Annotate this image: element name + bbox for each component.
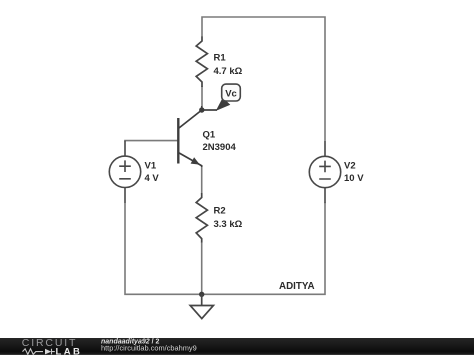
svg-text:4.7 kΩ: 4.7 kΩ bbox=[214, 66, 243, 77]
svg-text:Vc: Vc bbox=[225, 89, 237, 100]
wire R1 bottom lead to node bbox=[201, 86, 203, 106]
svg-text:4 V: 4 V bbox=[145, 173, 160, 184]
svg-text:ADITYA: ADITYA bbox=[279, 281, 315, 292]
svg-text:V2: V2 bbox=[344, 160, 356, 171]
wire V2 bottom to ground rail bbox=[202, 203, 325, 295]
logo resistor squiggle bbox=[23, 348, 44, 354]
transistor Q1 emitter bbox=[178, 153, 201, 168]
wire top rail from R1 branch to V2 branch bbox=[202, 17, 325, 141]
flag box Vc bbox=[222, 84, 241, 101]
svg-text:R2: R2 bbox=[214, 206, 226, 217]
voltage source V2 bbox=[309, 141, 340, 203]
transistor Q1 emitter arrow bbox=[191, 157, 200, 164]
footer bar bbox=[0, 338, 474, 356]
wire base route from V1 to Q1 bbox=[125, 140, 178, 143]
ground bbox=[190, 294, 213, 318]
voltage source V1 bbox=[109, 141, 140, 203]
wire V1 bottom to ground rail bbox=[125, 203, 202, 295]
svg-text:Q1: Q1 bbox=[203, 129, 216, 140]
svg-text:V1: V1 bbox=[145, 160, 157, 171]
svg-text:10 V: 10 V bbox=[344, 173, 364, 184]
wire R2 bottom to ground rail bbox=[201, 242, 203, 294]
svg-text:2N3904: 2N3904 bbox=[203, 142, 237, 153]
node Vc junction dot bbox=[199, 107, 204, 112]
wire emitter to R2 bbox=[201, 167, 203, 194]
flag pointer Vc bbox=[216, 98, 231, 111]
svg-text:http://circuitlab.com/cbahmy9: http://circuitlab.com/cbahmy9 bbox=[101, 343, 197, 352]
resistor R2 bbox=[196, 193, 207, 243]
wire flag lead bbox=[202, 109, 217, 111]
transistor Q1 base bar bbox=[177, 118, 179, 164]
transistor Q1 collector bbox=[178, 106, 202, 129]
svg-text:R1: R1 bbox=[214, 53, 227, 64]
svg-text:3.3 kΩ: 3.3 kΩ bbox=[214, 219, 243, 230]
svg-text:LAB: LAB bbox=[56, 346, 83, 356]
logo diode bbox=[45, 348, 51, 354]
node ground junction dot bbox=[199, 292, 204, 297]
resistor R1 bbox=[196, 37, 207, 88]
